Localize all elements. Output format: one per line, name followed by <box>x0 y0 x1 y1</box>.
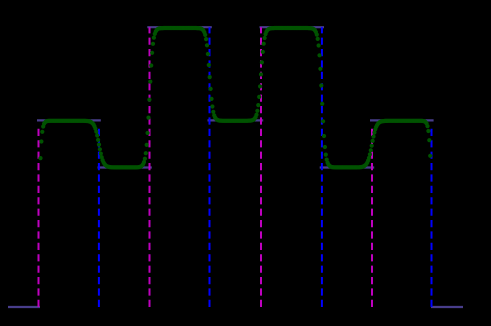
step level 1 segment B (slateblue) <box>208 119 264 121</box>
vline 8 falling edge marker (blue dashed) x=431.5 <box>431 126 433 307</box>
step level 1.5 segment B (slateblue) <box>260 26 325 28</box>
step level 0.75 segment B (slateblue) <box>320 166 375 168</box>
step level 1 segment A (slateblue) <box>37 119 101 121</box>
step level 1.5 segment A (slateblue) <box>147 26 212 28</box>
vline 1 rising edge marker (magenta dashed) x=38.5 <box>38 126 40 307</box>
vline 3 rising edge marker (magenta dashed) x=149.5 <box>149 27 151 307</box>
smoothed signal samples (dark green markers) <box>38 26 432 170</box>
vline 5 rising edge marker (magenta dashed) x=261.0 <box>260 27 262 307</box>
step level 1 segment C (slateblue) <box>370 119 434 121</box>
vline 6 falling edge marker (blue dashed) x=321.9 <box>321 27 323 307</box>
step level 0.75 segment A (slateblue) <box>98 166 152 168</box>
vline 2 falling edge marker (blue dashed) x=98.9 <box>98 126 100 307</box>
vline 7 rising edge marker (magenta dashed) x=372.0 <box>371 126 373 307</box>
baseline-right level 0 (slateblue) <box>431 306 463 308</box>
vline 4 falling edge marker (blue dashed) x=209.5 <box>209 27 211 307</box>
baseline-left level 0 (slateblue) <box>8 306 40 308</box>
